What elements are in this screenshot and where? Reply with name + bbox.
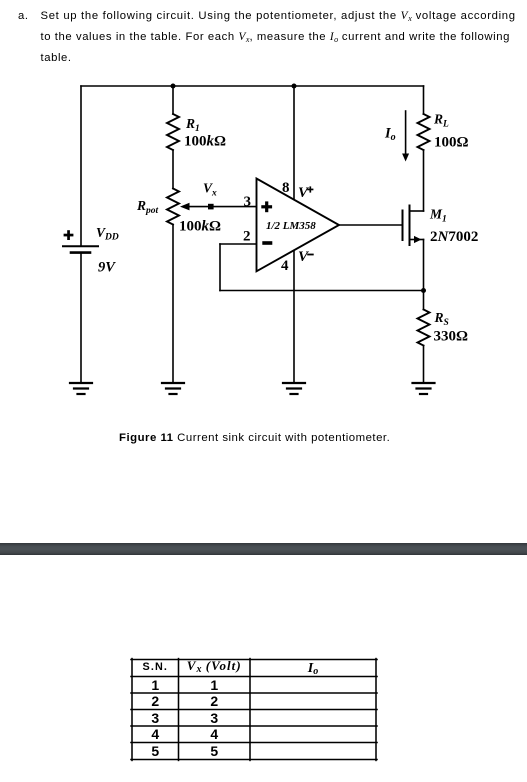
table grid (131, 659, 377, 761)
wiper arrow of Rpot (180, 203, 190, 211)
svg-text:4: 4 (281, 258, 289, 274)
node R1 top (171, 84, 176, 89)
table body numbers (132, 677, 179, 694)
resistor RL (418, 114, 430, 150)
svg-text:Vx: Vx (203, 181, 217, 199)
label + input (261, 201, 272, 212)
svg-text:100kΩ: 100kΩ (179, 219, 221, 235)
svg-text:330Ω: 330Ω (434, 329, 469, 345)
svg-text:8: 8 (282, 180, 290, 196)
wire left rail to battery (80, 86, 82, 246)
svg-text:RL: RL (433, 112, 449, 130)
ground (battery) (70, 383, 92, 394)
svg-text:Io: Io (384, 126, 396, 144)
ground (RS) (413, 383, 435, 394)
wire feedback vertical (219, 244, 221, 291)
svg-text:100kΩ: 100kΩ (184, 134, 226, 150)
wire top rail (81, 85, 424, 87)
svg-text:100Ω: 100Ω (434, 135, 469, 151)
svg-text:1/2 LM358: 1/2 LM358 (266, 220, 316, 232)
wire pot to ground (172, 225, 174, 383)
svg-text:R1: R1 (185, 116, 200, 134)
transistor M1 (403, 206, 424, 246)
wire pin 2 (220, 243, 256, 245)
table header Io (250, 659, 376, 676)
wire top rail to R1 (172, 86, 174, 114)
label V− (298, 249, 314, 265)
node op-amp V+ supply (292, 84, 297, 89)
label V+ (298, 185, 313, 201)
node Vx marker (208, 204, 214, 210)
divider bar (0, 543, 527, 555)
battery VDD (63, 230, 98, 252)
svg-text:VDD: VDD (96, 225, 119, 243)
svg-text:2N7002: 2N7002 (430, 229, 478, 245)
wire R1 to potentiometer (172, 150, 174, 189)
svg-text:M1: M1 (429, 207, 447, 225)
potentiometer Rpot (167, 189, 179, 225)
junction node source/feedback/RS (421, 288, 426, 293)
wire battery bottom to ground (80, 253, 82, 382)
svg-text:3: 3 (244, 194, 252, 210)
svg-text:9V: 9V (98, 260, 116, 276)
problem statement paragraph (18, 7, 527, 69)
table header S.N. (132, 659, 179, 675)
wire source down to node (423, 240, 425, 291)
table header Vx (Volt) (179, 658, 251, 673)
svg-text:Rpot: Rpot (136, 198, 159, 216)
op-amp U1 triangle (257, 179, 340, 272)
wire V+ / V− supply rail to ground (293, 86, 295, 199)
wire drain to RL (423, 150, 425, 211)
svg-text:V: V (298, 185, 310, 201)
wire feedback horizontal (220, 290, 424, 292)
current arrow Io (402, 111, 409, 162)
wire RS to ground (423, 346, 425, 383)
ground (pot) (162, 383, 184, 394)
resistor RS (418, 310, 430, 346)
wire top rail down to RL (423, 86, 425, 114)
label − input (262, 241, 272, 245)
wire wiper to pin 3 (188, 206, 256, 208)
wire op-amp output to gate (339, 224, 402, 226)
figure caption (119, 432, 390, 444)
resistor R1 (167, 114, 179, 150)
svg-text:RS: RS (434, 310, 449, 328)
wire node to RS (423, 291, 425, 310)
svg-text:V: V (298, 249, 310, 265)
ground (op-amp) (283, 383, 305, 394)
svg-text:2: 2 (243, 229, 251, 245)
